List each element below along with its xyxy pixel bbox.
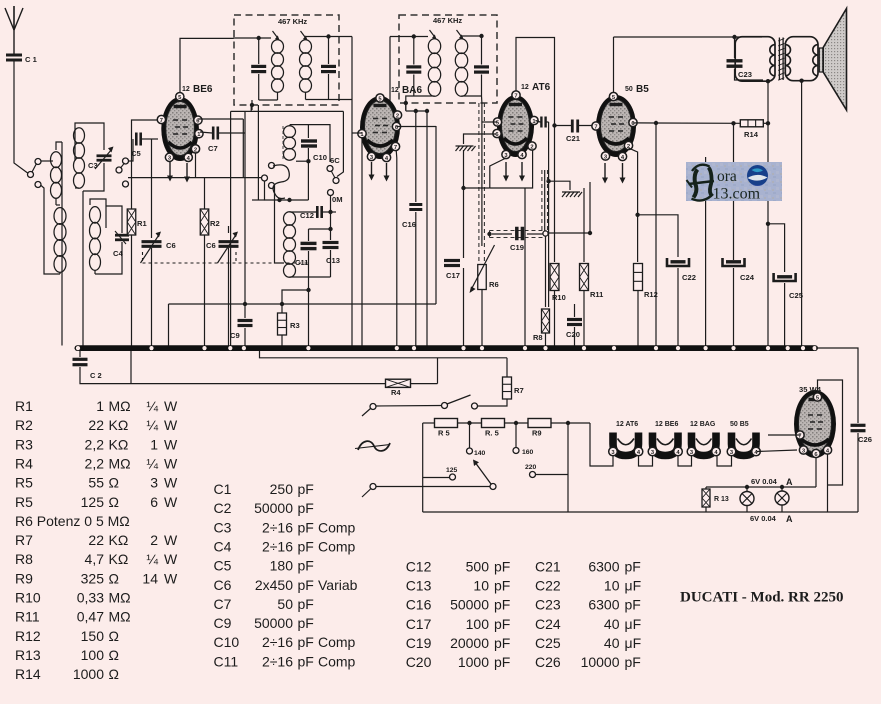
svg-text:KΩ: KΩ: [109, 532, 129, 548]
svg-text:6C: 6C: [330, 156, 340, 165]
wire coil frame: [41, 185, 61, 274]
switch contact ant: [28, 172, 34, 178]
svg-text:50000: 50000: [254, 615, 293, 631]
tube V2 12BA6: [360, 96, 400, 159]
wire chain link2: [678, 456, 692, 466]
capacitor C26: [851, 424, 866, 427]
wire V2 grid: [352, 132, 362, 134]
svg-text:Ω: Ω: [109, 628, 119, 644]
svg-text:pF: pF: [298, 481, 314, 497]
shield right: [541, 170, 543, 231]
svg-text:10000: 10000: [581, 654, 620, 670]
wire C20 col: [574, 304, 576, 317]
svg-text:0M: 0M: [332, 195, 343, 204]
sine symbol: [358, 441, 390, 451]
wire pin7 drop: [132, 120, 163, 209]
wire C4: [106, 206, 122, 233]
svg-text:35 W4: 35 W4: [799, 385, 822, 394]
capacitor C13: [323, 241, 339, 244]
svg-text:467 KHz: 467 KHz: [433, 16, 462, 25]
svg-text:A: A: [786, 477, 793, 487]
svg-text:C5: C5: [214, 558, 232, 574]
svg-text:B5: B5: [636, 84, 649, 95]
svg-text:W: W: [164, 570, 178, 586]
resistor R8: [542, 309, 550, 333]
capacitor C4: [115, 234, 129, 237]
wire x525 col: [524, 188, 526, 346]
wire chain to rect: [757, 450, 798, 452]
wire C12: [290, 211, 318, 213]
svg-text:C13: C13: [326, 256, 340, 265]
svg-text:7: 7: [160, 118, 163, 124]
resistor R10: [550, 264, 559, 291]
wire selector frame: [422, 423, 424, 512]
svg-text:C9: C9: [230, 331, 240, 340]
svg-text:6300: 6300: [588, 558, 619, 574]
capacitor C20: [567, 318, 582, 321]
svg-text:pF: pF: [298, 500, 314, 516]
wire C5-col down: [151, 139, 153, 238]
arrow cathode V4a: [604, 163, 606, 179]
wire x362: [361, 138, 363, 346]
wire C5 right: [141, 138, 152, 140]
svg-text:W: W: [164, 551, 178, 567]
svg-text:Ω: Ω: [109, 570, 119, 586]
svg-text:C17: C17: [406, 616, 432, 632]
junction IF1: [257, 36, 261, 40]
wire C23: [734, 37, 736, 58]
svg-text:R1: R1: [137, 219, 147, 228]
svg-text:1000: 1000: [73, 666, 104, 682]
svg-text:Comp: Comp: [318, 634, 356, 650]
svg-text:C5: C5: [131, 149, 141, 158]
svg-text:A: A: [786, 514, 793, 524]
svg-text:2: 2: [150, 532, 158, 548]
transformer T1 primary: [735, 37, 775, 81]
wire IF2 top: [390, 36, 428, 38]
svg-text:6V 0.04: 6V 0.04: [750, 514, 777, 523]
wire pin2 drop R2: [195, 154, 197, 178]
svg-text:500: 500: [466, 558, 490, 574]
svg-text:pF: pF: [298, 558, 314, 574]
svg-text:C16: C16: [406, 597, 432, 613]
svg-text:1: 1: [96, 398, 104, 414]
coil L2 frame: [75, 123, 104, 161]
wire x656 col: [655, 122, 657, 346]
svg-text:2: 2: [194, 147, 197, 153]
svg-text:R6 Potenz 0 5 MΩ: R6 Potenz 0 5 MΩ: [15, 513, 130, 529]
coil IF2 sec: [455, 39, 467, 54]
svg-text:R. 5: R. 5: [485, 429, 499, 438]
svg-text:40: 40: [604, 616, 620, 632]
wire C2: [79, 350, 81, 357]
svg-text:pF: pF: [298, 596, 314, 612]
svg-text:C22: C22: [535, 577, 561, 593]
svg-text:C25: C25: [535, 635, 561, 651]
svg-text:R4: R4: [15, 455, 33, 471]
capacitor C25 electrolytic: [777, 275, 792, 278]
wire x308 col: [308, 289, 310, 291]
capacitor C3 variable: [97, 154, 112, 157]
svg-text:MΩ: MΩ: [109, 590, 131, 606]
wire R14 row: [656, 122, 740, 124]
lamp LP1: [740, 492, 754, 506]
svg-text:C23: C23: [535, 597, 561, 613]
svg-text:pF: pF: [298, 653, 314, 669]
potentiometer R6: [478, 265, 487, 290]
svg-text:R10: R10: [15, 590, 41, 606]
wire low rail: [132, 383, 386, 385]
svg-text:C26: C26: [535, 654, 561, 670]
svg-text:C3: C3: [214, 519, 232, 535]
svg-text:BE6: BE6: [193, 84, 213, 95]
svg-text:467 KHz: 467 KHz: [278, 17, 307, 26]
wire tap140: [469, 423, 471, 448]
svg-text:12: 12: [182, 86, 190, 93]
capacitor C6b variable: [219, 240, 239, 243]
svg-text:50 B5: 50 B5: [730, 421, 749, 428]
arrow cathode V3b: [521, 162, 523, 177]
svg-text:C21: C21: [535, 558, 561, 574]
capacitor C21: [571, 120, 574, 133]
svg-text:7: 7: [514, 93, 517, 99]
junction osc: [277, 198, 281, 202]
svg-text:C20: C20: [406, 654, 432, 670]
svg-text:12: 12: [521, 84, 529, 91]
wire bottom rail: [423, 511, 858, 513]
svg-text:R14: R14: [15, 666, 41, 682]
wire V2 pin6: [397, 126, 437, 128]
watermark hora13: [686, 162, 782, 201]
coil L3 frame: [90, 199, 106, 228]
filament F2 12BE6: [653, 433, 679, 456]
svg-text:pF: pF: [494, 654, 510, 670]
wire rotor: [275, 186, 285, 263]
svg-text:6V 0.04: 6V 0.04: [751, 477, 778, 486]
svg-text:pF: pF: [625, 558, 641, 574]
capacitor C6a variable: [142, 240, 162, 243]
svg-text:C20: C20: [566, 330, 580, 339]
svg-text:KΩ: KΩ: [109, 436, 129, 452]
wire det row: [464, 187, 490, 189]
coil IF1 sec: [300, 40, 312, 54]
wire C3 down: [83, 163, 104, 191]
svg-text:W: W: [164, 475, 178, 491]
wire chain link3: [717, 456, 732, 466]
wire IF2 sec top: [462, 35, 482, 37]
junction C19 right: [543, 231, 548, 236]
wire C21: [555, 125, 572, 127]
wire C17 col: [463, 150, 465, 258]
wire AVC line: [169, 303, 437, 305]
svg-text:pF: pF: [494, 616, 510, 632]
svg-text:DUCATI - Mod. RR 2250: DUCATI - Mod. RR 2250: [680, 590, 843, 606]
resistor R7: [503, 377, 512, 399]
selector wiper: [490, 484, 496, 490]
arrow cathode V2b: [386, 163, 388, 177]
resistor R13: [702, 489, 710, 507]
shielded run C19: [490, 230, 546, 232]
capacitor C10: [301, 139, 317, 142]
capacitor C12: [316, 206, 319, 218]
svg-text:R3: R3: [15, 436, 33, 452]
svg-text:R2: R2: [15, 417, 33, 433]
wire R7 top: [506, 358, 508, 377]
tube V3 12AT6: [497, 95, 534, 157]
svg-text:0,33: 0,33: [77, 590, 104, 606]
wire R10 bot: [554, 290, 556, 346]
resistor R2: [200, 209, 209, 235]
svg-text:13.com: 13.com: [713, 186, 761, 203]
svg-text:Variab: Variab: [318, 577, 358, 593]
shielded wire left: [478, 103, 480, 262]
wire C11 C13: [308, 229, 310, 241]
wire C7 left: [200, 132, 212, 133]
IF2 shield box: [399, 15, 497, 103]
svg-text:pF: pF: [298, 538, 314, 554]
wire tap160: [515, 423, 517, 447]
wire pin5 up: [180, 38, 234, 92]
wire C14: [258, 38, 260, 64]
coil L4: [284, 126, 296, 138]
wire det gnd2: [549, 181, 570, 190]
wire switch to C5: [128, 139, 133, 161]
filament F4 50B5: [732, 433, 757, 456]
svg-text:R3: R3: [290, 321, 300, 330]
svg-text:pF: pF: [625, 597, 641, 613]
svg-text:C11: C11: [214, 653, 239, 669]
svg-text:2,2: 2,2: [85, 455, 105, 471]
svg-text:250: 250: [270, 481, 294, 497]
resistor R9: [528, 419, 551, 428]
svg-text:¼: ¼: [146, 417, 158, 433]
capacitor C16: [409, 203, 422, 206]
svg-text:C24: C24: [740, 273, 755, 282]
wire osc top: [290, 125, 330, 162]
svg-text:140: 140: [474, 450, 486, 457]
wire gang dashes: [142, 252, 144, 263]
svg-text:R7: R7: [514, 386, 524, 395]
svg-text:14: 14: [142, 570, 158, 586]
resistor R4: [386, 379, 411, 387]
svg-text:pF: pF: [298, 519, 314, 535]
svg-text:22: 22: [88, 532, 104, 548]
svg-text:40: 40: [604, 635, 620, 651]
svg-text:R1: R1: [15, 398, 33, 414]
tube V5 35W4: [794, 390, 836, 458]
wire x556 col: [554, 120, 556, 262]
svg-text:7: 7: [594, 124, 597, 130]
wire C24 top: [733, 123, 735, 260]
svg-text:W: W: [164, 436, 178, 452]
bus bar: [75, 345, 819, 351]
wire tap125: [423, 477, 449, 479]
svg-text:Comp: Comp: [318, 653, 356, 669]
wire V2 plate to IF2: [390, 37, 398, 115]
wire tap220: [536, 474, 568, 476]
svg-text:C3: C3: [88, 161, 98, 170]
wire x768 col: [767, 123, 769, 345]
svg-text:Ω: Ω: [109, 494, 119, 510]
svg-text:μF: μF: [625, 577, 642, 593]
capacitor C22 electrolytic: [671, 260, 686, 263]
svg-text:100: 100: [81, 647, 105, 663]
svg-text:¼: ¼: [146, 398, 158, 414]
ground gnd2: [562, 192, 566, 197]
svg-text:R14: R14: [744, 130, 759, 139]
wire R12 col: [629, 148, 638, 262]
svg-text:10: 10: [473, 577, 489, 593]
svg-text:125: 125: [81, 494, 105, 510]
svg-text:¼: ¼: [146, 551, 158, 567]
svg-text:6: 6: [150, 494, 158, 510]
svg-text:2,2: 2,2: [85, 436, 105, 452]
wire C6b col: [228, 248, 230, 346]
switch S1a: [370, 404, 376, 410]
transformer T1 core: [778, 38, 780, 81]
svg-text:pF: pF: [625, 654, 641, 670]
wire C25 bot: [784, 283, 786, 346]
osc frame top: [231, 110, 344, 112]
svg-text:C26: C26: [858, 435, 872, 444]
coil IF1 pri: [272, 40, 284, 54]
wire pin4 down: [827, 454, 829, 512]
coil L5: [284, 212, 296, 226]
wire V5 plate: [818, 380, 843, 485]
svg-text:10: 10: [604, 577, 620, 593]
wire R12 bot: [637, 290, 639, 346]
lamp LP2: [775, 491, 789, 505]
svg-text:20000: 20000: [450, 635, 489, 651]
svg-text:2÷16: 2÷16: [262, 538, 293, 554]
wire V5 pin7: [768, 434, 800, 436]
svg-text:KΩ: KΩ: [109, 417, 129, 433]
wire R1 bottom: [131, 235, 133, 346]
wire osc bottom rail: [290, 276, 331, 278]
svg-text:R9: R9: [15, 570, 33, 586]
resistor R11: [580, 264, 589, 291]
switch 6C: [327, 166, 333, 172]
svg-text:R11: R11: [590, 290, 603, 299]
svg-text:C12: C12: [406, 558, 432, 574]
svg-text:C1: C1: [214, 481, 232, 497]
arrow cathode V3a: [505, 162, 507, 177]
svg-text:KΩ: KΩ: [109, 551, 129, 567]
svg-text:C10: C10: [214, 634, 240, 650]
svg-text:C19: C19: [510, 243, 524, 252]
capacitor C7: [212, 127, 215, 140]
arrow cathode V1a: [169, 162, 171, 177]
svg-text:W: W: [164, 417, 178, 433]
resistor R5b: [482, 419, 505, 428]
svg-text:220: 220: [525, 464, 537, 471]
wire gnd col: [61, 142, 63, 346]
coil L1a: [41, 160, 54, 162]
wire V3 pin6 gnd: [464, 134, 497, 144]
svg-text:R7: R7: [15, 532, 33, 548]
wire V3 pin34 drop: [490, 158, 506, 188]
svg-text:W: W: [164, 494, 178, 510]
wire x428 col: [426, 111, 428, 346]
wire osc bottom: [82, 191, 84, 346]
wire C10 bot: [307, 148, 309, 200]
IF1 shield box: [234, 15, 339, 105]
wire IF2 sec bot: [462, 95, 482, 97]
osc frame right: [337, 111, 343, 176]
svg-text:R11: R11: [15, 609, 40, 625]
wire lamp top rail: [706, 486, 816, 488]
wire x590-ish: [589, 182, 591, 233]
svg-text:C19: C19: [406, 635, 432, 651]
svg-text:R5: R5: [15, 475, 33, 491]
svg-text:pF: pF: [298, 634, 314, 650]
svg-text:C22: C22: [682, 273, 696, 282]
svg-text:R12: R12: [644, 290, 658, 299]
svg-text:pF: pF: [298, 615, 314, 631]
wire C16 col: [415, 111, 417, 202]
svg-text:C7: C7: [214, 596, 232, 612]
svg-text:pF: pF: [494, 577, 510, 593]
svg-text:R 5: R 5: [438, 429, 450, 438]
svg-text:2: 2: [530, 144, 533, 150]
wire x352: [351, 37, 353, 346]
svg-text:MΩ: MΩ: [109, 398, 131, 414]
svg-text:C6: C6: [166, 241, 176, 250]
svg-text:12 AT6: 12 AT6: [616, 421, 638, 428]
capacitor C11: [301, 242, 317, 245]
wire R11 col: [583, 188, 585, 262]
capacitor Cx pin1: [540, 117, 542, 128]
wire x705 col: [705, 157, 707, 346]
wire IF2 pri bot: [406, 96, 435, 110]
wire grid to tube: [152, 138, 159, 140]
wire AVC left down: [168, 304, 170, 346]
wire R12 C22 link: [638, 215, 678, 257]
capacitor C15: [321, 65, 336, 68]
tube V4 50B5: [596, 95, 636, 157]
switch S1b contact: [472, 403, 478, 409]
speaker: [819, 48, 823, 72]
wire 0M down: [330, 196, 332, 213]
svg-text:R8: R8: [15, 551, 33, 567]
svg-text:C16: C16: [402, 220, 416, 229]
coil L3: [90, 207, 101, 223]
capacitor C19: [515, 227, 519, 241]
wire C26 bot: [857, 433, 859, 512]
svg-text:W: W: [164, 532, 178, 548]
svg-text:W: W: [164, 398, 178, 414]
svg-text:C17: C17: [446, 271, 460, 280]
svg-text:BA6: BA6: [402, 85, 422, 96]
wire C25 feed: [768, 224, 785, 272]
wire plate V1: [198, 118, 243, 120]
svg-text:12 BE6: 12 BE6: [655, 421, 678, 428]
svg-text:R9: R9: [532, 429, 542, 438]
capacitor C9: [238, 319, 253, 322]
resistor R1: [127, 209, 136, 235]
wire IF1 pri bottom: [259, 99, 278, 101]
switch contacts band: [116, 167, 122, 173]
wire C9 col: [244, 111, 246, 318]
svg-text:3: 3: [150, 475, 158, 491]
svg-text:pF: pF: [298, 577, 314, 593]
svg-text:W: W: [164, 455, 178, 471]
ground gnd1: [456, 146, 460, 151]
wire osc mid vert: [257, 105, 259, 200]
svg-text:Ω: Ω: [109, 475, 119, 491]
svg-text:C21: C21: [566, 134, 581, 143]
svg-text:μF: μF: [625, 635, 642, 651]
